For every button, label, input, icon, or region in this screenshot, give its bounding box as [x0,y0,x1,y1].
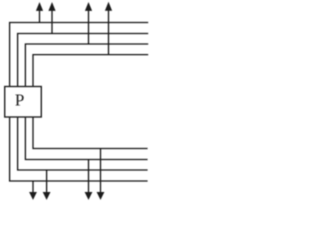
wire loop4 bottom: down from box, right along y=148.5 [33,117,148,149]
arrowhead A4 [105,2,112,11]
arrow A3 shaft (up from loop3 top line) [88,10,90,45]
svg-text:P: P [15,91,24,110]
arrowhead B3 [85,192,93,200]
wire loop1 top (outermost): up from box, right along y=22.5 [10,23,149,87]
arrowhead A3 [85,2,92,11]
arrow A4 shaft (up from loop4 top line) [108,10,110,55]
wire loop2 bottom: down from box, right along y=170 [18,117,148,170]
processor box P [5,87,42,118]
wire loop1 bottom: down from box, right along y=181 [10,117,148,181]
arrow B3 shaft (down from loop3 bottom line) [88,160,90,193]
wire loop2 top: up from box, right along y=33.5 [18,34,149,87]
arrow B1 shaft (down from loop1 bottom line) [32,181,34,193]
arrowhead B1 [29,192,37,200]
arrow B2 shaft (down from loop2 bottom line) [46,170,48,193]
arrowhead B2 [43,192,51,200]
wire loop4 top (innermost): up from box, right along y=54.5 [33,55,148,87]
arrow A2 shaft (up from loop2 top line) [51,10,53,34]
arrow A1 shaft (up from loop1 top line) [39,10,41,23]
wire loop3 top: up from box, right along y=44 [25,44,148,87]
arrowhead A1 [36,2,43,11]
arrowhead B4 [97,192,105,200]
arrowhead A2 [48,2,55,11]
wire loop3 bottom: down from box, right along y=159.5 [25,117,147,160]
arrow B4 shaft (down from loop4 bottom line) [100,149,102,193]
